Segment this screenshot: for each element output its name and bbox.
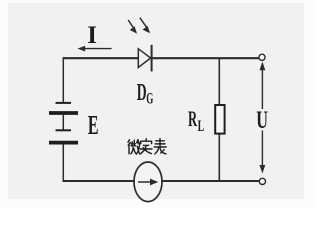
- terminal top: [259, 54, 265, 60]
- photodiode DG cathode bar: [151, 45, 153, 72]
- battery E plate 4 (long thick): [49, 141, 78, 145]
- wire RL branch upper: [218, 58, 220, 106]
- label U: [256, 105, 268, 133]
- svg-text:E: E: [88, 109, 99, 139]
- wire RL branch lower: [218, 134, 220, 182]
- light arrow 1 into photodiode: [128, 20, 137, 34]
- svg-text:D: D: [137, 79, 147, 106]
- battery E middle link wire: [62, 114, 64, 130]
- label E: [88, 109, 99, 139]
- current arrow I: [77, 46, 111, 52]
- light arrow 2 into photodiode: [140, 18, 150, 34]
- battery E plate 1 (short): [56, 102, 72, 104]
- resistor RL box: [215, 105, 224, 134]
- microammeter circle: [134, 162, 162, 202]
- microammeter arrow: [138, 179, 158, 186]
- battery E plate 2 (long thick): [49, 111, 78, 115]
- wire bottom left segment: [63, 180, 135, 182]
- label 微安表 (microammeter) drawn as strokes: [128, 139, 166, 154]
- wire left upper: [62, 57, 64, 102]
- label I: [87, 22, 97, 49]
- svg-text:L: L: [198, 118, 205, 135]
- label DG: [137, 79, 154, 107]
- char 安: [140, 139, 152, 154]
- char 表: [154, 139, 166, 154]
- photodiode DG triangle: [138, 49, 150, 68]
- terminal bottom: [259, 178, 265, 184]
- svg-text:U: U: [256, 105, 268, 133]
- voltage arrow U down: [260, 131, 266, 174]
- svg-text:I: I: [87, 22, 97, 49]
- svg-text:R: R: [188, 106, 198, 131]
- wire bottom right segment: [162, 180, 260, 182]
- voltage arrow U up: [260, 62, 266, 110]
- label RL: [188, 106, 204, 134]
- char 微: [128, 140, 140, 154]
- wire top left segment: [63, 57, 138, 59]
- battery E plate 3 (short): [56, 129, 72, 131]
- wire top right segment: [152, 57, 259, 59]
- wire left lower: [62, 143, 64, 182]
- svg-text:G: G: [146, 89, 153, 107]
